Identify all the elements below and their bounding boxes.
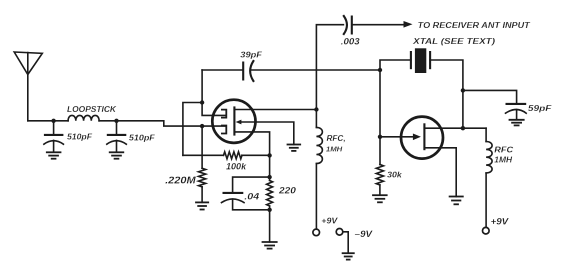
svg-text:220: 220 bbox=[278, 186, 297, 196]
svg-text:510pF: 510pF bbox=[129, 132, 156, 142]
node Q2 drain junction bbox=[461, 126, 465, 130]
ground C2 bbox=[109, 152, 124, 158]
resistor R3 100k bbox=[183, 154, 224, 156]
ground -9V bbox=[342, 253, 355, 259]
capacitor C4 .003 bbox=[344, 16, 347, 34]
svg-text:RFC,: RFC, bbox=[327, 133, 346, 143]
resistor R4 220 bbox=[269, 155, 271, 180]
wire Q1 source bbox=[234, 132, 269, 156]
wire antenna to loopstick bbox=[28, 120, 68, 122]
svg-text:LOOPSTICK: LOOPSTICK bbox=[67, 105, 117, 114]
wire Q1 substrate to ground bbox=[241, 122, 294, 144]
wire .003 to arrow bbox=[352, 24, 405, 26]
Q2 channel bar bbox=[423, 123, 425, 150]
node left 510pF junction bbox=[51, 119, 55, 123]
svg-text:30k: 30k bbox=[387, 170, 402, 180]
ground Q2 source bbox=[449, 197, 464, 205]
ground Q1 substrate bbox=[287, 145, 302, 151]
terminal +9V left bbox=[313, 229, 320, 236]
ground R1 bbox=[195, 202, 209, 209]
ground C1 bbox=[46, 152, 62, 158]
wire 220 to ground bbox=[269, 210, 271, 242]
node Q2 gate junction bbox=[378, 135, 382, 139]
capacitor C5 59pF bbox=[506, 103, 527, 105]
wire drain bus up to .003 bbox=[316, 25, 343, 110]
ground C5 bbox=[509, 120, 525, 126]
svg-text:–9V: –9V bbox=[355, 228, 373, 239]
wire input step to gate1 node bbox=[117, 121, 203, 126]
node 100k junction bbox=[267, 153, 271, 157]
svg-text:RFC: RFC bbox=[494, 145, 514, 155]
capacitor C3 39pF bbox=[242, 62, 244, 81]
node drain junction bbox=[314, 107, 318, 111]
svg-text:TO RECEIVER ANT INPUT: TO RECEIVER ANT INPUT bbox=[418, 20, 531, 30]
svg-text:510pF: 510pF bbox=[67, 132, 93, 142]
node 220 top junction bbox=[267, 175, 271, 179]
transistor Q2 JFET bbox=[401, 117, 443, 159]
svg-text:59pF: 59pF bbox=[528, 103, 553, 113]
svg-text:1MH: 1MH bbox=[494, 156, 512, 165]
svg-text:.003: .003 bbox=[341, 36, 361, 47]
wire XTAL left leg bbox=[380, 60, 411, 70]
terminal -9V bbox=[336, 229, 343, 236]
terminal +9V right bbox=[483, 227, 490, 234]
inductor L2 RFC 1MH bbox=[485, 128, 487, 141]
svg-text:.220M: .220M bbox=[165, 175, 196, 186]
wire gate bus down bbox=[379, 70, 381, 137]
capacitor C2 510pF right bbox=[116, 121, 118, 135]
arrow to receiver bbox=[404, 21, 413, 28]
node 220 bottom junction bbox=[267, 208, 271, 212]
wire 39pF to XTAL node bbox=[251, 69, 380, 71]
wire left bus bbox=[183, 103, 202, 156]
capacitor C1 510pF left bbox=[53, 121, 55, 135]
inductor L1 RFC 1MH bbox=[315, 110, 317, 128]
wire gate1 lead bbox=[202, 125, 225, 127]
wire XTAL right leg bbox=[430, 60, 463, 128]
Q1 gate1 electrode bbox=[222, 126, 226, 134]
svg-text:1MH: 1MH bbox=[326, 145, 343, 154]
svg-text:.04: .04 bbox=[244, 191, 260, 202]
svg-text:+9V: +9V bbox=[321, 216, 338, 226]
wire to 59pF bbox=[463, 90, 517, 103]
crystal Y1 XTAL bbox=[410, 51, 412, 69]
svg-text:+9V: +9V bbox=[491, 216, 509, 227]
svg-text:XTAL (SEE TEXT): XTAL (SEE TEXT) bbox=[412, 36, 495, 46]
wire Q2 source to ground bbox=[424, 148, 456, 197]
wire 39pF left bbox=[202, 69, 243, 71]
antenna bbox=[14, 52, 42, 75]
Q1 substrate arrow bbox=[236, 120, 242, 125]
svg-text:39pF: 39pF bbox=[240, 51, 263, 60]
wire Q2 gate with arrow bbox=[380, 136, 414, 138]
svg-text:100k: 100k bbox=[226, 162, 247, 172]
node 39pF-XTAL junction bbox=[378, 68, 382, 72]
node gate1 junction bbox=[200, 124, 204, 128]
inductor LOOPSTICK bbox=[68, 115, 99, 120]
wire -9V to ground bbox=[343, 232, 348, 253]
node gate2 junction bbox=[200, 100, 204, 104]
wire loopstick to right node bbox=[99, 120, 116, 122]
ground R2 bbox=[372, 195, 388, 202]
wire Q2 drain bbox=[424, 127, 486, 129]
ground R4 bbox=[262, 242, 278, 249]
Q1 gate2 electrode bbox=[222, 110, 226, 118]
node 59pF tap bbox=[461, 88, 465, 92]
wire Q1 drain bbox=[234, 109, 316, 111]
node right 510pF junction bbox=[114, 119, 118, 123]
resistor R1 .220M bbox=[201, 126, 203, 168]
wire gate2 lead bbox=[202, 103, 225, 116]
Q1 channel bar bbox=[233, 106, 235, 135]
resistor R2 30k bbox=[379, 137, 381, 165]
wire 39pF riser bbox=[201, 70, 203, 103]
transistor Q1 dual-gate MOSFET bbox=[212, 100, 255, 143]
capacitor C6 .04 bbox=[233, 177, 270, 193]
